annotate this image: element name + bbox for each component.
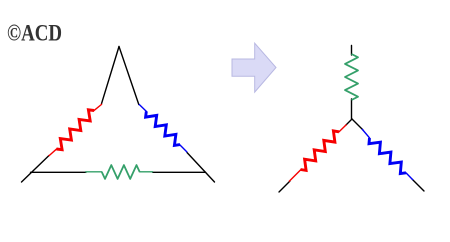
resistor R_green (delta bottom side) lead (85, 171, 102, 173)
wire: delta bottom side right segment (153, 171, 206, 173)
resistor R_red (wye lower-left) zigzag (301, 131, 340, 171)
wire: wye lower-left branch terminal stub (279, 181, 290, 192)
resistor R_red (delta left side) lead (49, 148, 58, 156)
resistor R_blue (delta right side) lead (139, 104, 147, 112)
resistor R_blue (wye lower-right) zigzag (369, 138, 406, 174)
resistor R_green (wye top) zigzag (345, 54, 358, 100)
resistor R_green (delta bottom side) right lead (139, 171, 153, 173)
wire: delta apex to left side (steep segment) (102, 47, 120, 104)
resistor R_blue (wye lower-right) lead (362, 129, 370, 138)
wire: wye lower-right branch node segment (352, 119, 363, 130)
arrow: delta-to-wye transformation (232, 43, 276, 92)
wire: delta apex to right side (steep segment) (119, 47, 139, 105)
svg-text:©ACD: ©ACD (7, 20, 62, 45)
resistor R_red (delta left side) upper lead (93, 104, 102, 111)
resistor R_red (wye lower-left) upper lead (339, 125, 347, 133)
resistor R_blue (delta right side) lower lead (179, 144, 187, 152)
resistor R_blue (wye lower-right) lower lead (406, 173, 413, 180)
resistor R_red (wye lower-left) lead (289, 170, 301, 182)
resistor R_blue (delta right side) zigzag (146, 112, 180, 146)
resistor R_red (delta left side) zigzag (57, 110, 95, 150)
wire: wye top branch terminal stub (351, 46, 353, 56)
wire: delta bottom side left segment (31, 171, 87, 173)
wire: wye lower-right branch terminal stub (412, 179, 424, 191)
resistor R_green (delta bottom side) zigzag (102, 165, 140, 179)
wire: delta lower-left 45deg segment with terminal stub (22, 156, 50, 183)
wire: wye top branch lower lead to node (351, 99, 353, 119)
wire: delta lower-right 45deg segment with terminal stub (187, 153, 215, 183)
wire: wye lower-left branch node segment (346, 119, 353, 126)
